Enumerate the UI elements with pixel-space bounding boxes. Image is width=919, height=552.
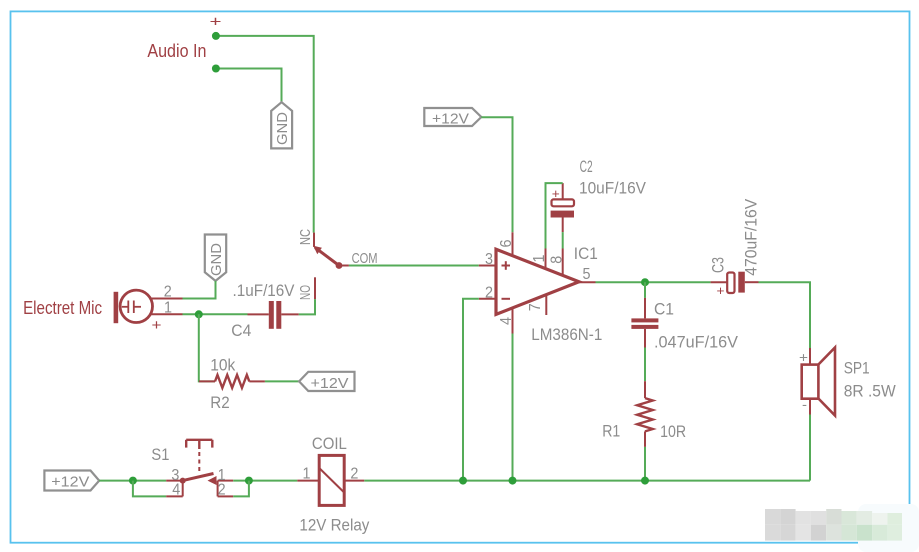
wire Audio In top to NC [216,36,314,233]
junction rail pin2 net [459,477,467,485]
junction Audio In bottom [212,65,220,73]
svg-text:+: + [152,317,162,334]
junction Audio In top [212,32,220,40]
resistor R2 10k [199,355,265,412]
svg-text:2: 2 [218,482,226,499]
svg-text:+12V: +12V [51,473,89,490]
wire Audio In bottom to GND [216,69,282,103]
svg-text:C4: C4 [231,321,251,340]
wire loop to switch pin4 [133,481,166,497]
svg-text:GND: GND [274,112,291,145]
capacitor C4 .1uF/16V [231,281,298,340]
svg-text:C1: C1 [654,299,674,318]
svg-text:R1: R1 [602,422,620,441]
wire C4 to NO [299,299,315,314]
wire +12V to switch [99,480,166,482]
junction rail pin4 net [509,477,517,485]
svg-text:GND: GND [208,243,225,276]
wire pin1 up over to C2 [546,183,563,248]
svg-text:10R: 10R [660,422,686,441]
node NO [297,277,315,300]
wire C3 to speaker [759,282,811,348]
svg-text:NC: NC [297,229,314,245]
node COM [336,250,378,269]
capacitor C2 10uF/16V [551,157,647,232]
svg-text:+12V: +12V [432,110,469,127]
svg-text:COM: COM [352,250,378,267]
switch S2 NC contact [297,229,322,254]
svg-text:4: 4 [498,317,515,325]
svg-text:Electret Mic: Electret Mic [23,298,102,318]
svg-text:1: 1 [531,254,548,262]
wire loop switch pin2 [233,481,249,497]
junction left switch [129,477,137,485]
switch S1 pushbutton [151,440,233,499]
svg-text:+: + [210,14,222,31]
svg-text:NO: NO [297,285,314,300]
relay K1 COIL [297,434,370,534]
wire C1 to R1 [644,348,646,382]
pin 1 op-amp [545,249,547,269]
pin 4 op-amp [512,308,514,334]
wire speaker to ground rail [809,415,811,481]
speaker SP1 8R .5W [799,348,896,416]
wire switch pin1 to relay [233,480,297,482]
svg-text:8R .5W: 8R .5W [844,382,896,401]
svg-text:.1uF/16V: .1uF/16V [233,281,296,300]
pin 7 op-amp [545,295,547,315]
svg-text:Audio In: Audio In [147,41,206,61]
wire mic pin1 to C4 [183,313,248,315]
svg-text:COIL: COIL [312,434,347,453]
svg-text:.047uF/16V: .047uF/16V [654,333,739,352]
wire COM to op-amp pin3 [349,265,479,267]
wire R1 to ground rail [644,447,646,481]
junction output node [641,278,649,286]
supply flag +12V bottom left [44,471,99,491]
svg-text:C3: C3 [709,257,728,273]
svg-text:R2: R2 [210,393,229,412]
wire output node down to C1 [644,282,646,298]
supply flag +12V top [424,108,481,127]
svg-text:470uF/16V: 470uF/16V [742,198,761,276]
svg-text:+12V: +12V [311,375,349,392]
watermark mosaic [765,504,919,552]
wire ground rail [364,480,810,482]
svg-text:SP1: SP1 [844,358,870,377]
pin 8 op-amp [562,249,564,276]
pin 3 op-amp [479,265,496,267]
svg-text:10k: 10k [210,355,235,374]
svg-text:1: 1 [303,465,311,482]
wire mic node down to R2 [199,314,215,381]
svg-text:12V Relay: 12V Relay [299,515,369,534]
pin mic 2 [150,298,183,300]
wire pin4 to ground rail [512,334,514,481]
svg-text:C2: C2 [580,157,593,176]
capacitor C3 470uF/16V [709,198,761,298]
pin 5 op-amp [579,281,596,283]
pin 2 op-amp [479,298,496,300]
junction mic node [195,310,203,318]
wire R2 to +12V flag [265,380,299,382]
switch lever to COM [315,248,339,266]
svg-text:5: 5 [583,266,591,283]
wire pin2 feedback to ground rail [463,299,479,481]
svg-text:6: 6 [498,239,515,247]
junction rail R1 [641,477,649,485]
svg-text:IC1: IC1 [574,244,598,263]
svg-text:+: + [799,349,808,365]
wire C2 to pin 8 [562,232,564,248]
pin 6 op-amp [512,232,514,255]
ground symbol GND1 [271,102,292,148]
svg-text:LM386N-1: LM386N-1 [531,325,602,344]
ground symbol GND2 [205,235,226,281]
op-amp IC1 LM386N-1 [496,244,602,344]
wire GND2 to mic pin 2 [183,281,216,299]
capacitor C1 .047uF/16V [631,298,738,352]
svg-text:+: + [717,283,725,298]
resistor R1 10R [602,381,686,447]
svg-text:S1: S1 [151,445,169,464]
wire +12V to pin 6 [481,117,512,232]
supply flag +12V right [299,372,354,392]
svg-text:8: 8 [548,256,565,264]
microphone MIC1 Electret Mic [23,290,162,334]
pin mic 1 [151,313,183,315]
svg-text:2: 2 [485,285,493,302]
svg-text:10uF/16V: 10uF/16V [579,179,647,198]
wire output pin5 to C3 [596,281,711,283]
svg-text:4: 4 [172,482,180,499]
svg-text:7: 7 [527,303,544,311]
svg-text:2: 2 [350,465,358,482]
junction right switch [245,477,253,485]
svg-text:3: 3 [485,251,493,268]
